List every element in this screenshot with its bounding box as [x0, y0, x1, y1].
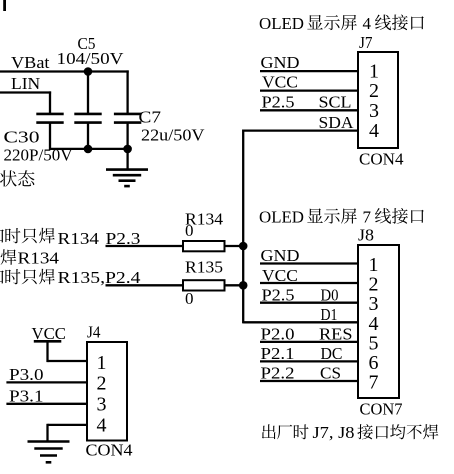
wire: J7 GND pin 1 — [260, 70, 358, 72]
wire: VBat horizontal rail — [0, 70, 129, 72]
connector J4 body — [87, 342, 127, 441]
svg-text:VCC: VCC — [32, 324, 67, 343]
wire: drop from VBat rail to C5 — [87, 72, 89, 115]
svg-text:R134: R134 — [58, 229, 100, 248]
wire: J7 SCL pin 3 — [260, 109, 358, 111]
svg-text:P2.2: P2.2 — [261, 364, 295, 383]
wire: vertical bus SDA/D1 — [242, 130, 244, 324]
svg-text:RES: RES — [319, 325, 353, 344]
wire: P2.3 to R134 — [106, 245, 184, 247]
svg-text:VCC: VCC — [262, 72, 298, 91]
svg-text:VCC: VCC — [262, 266, 298, 285]
capacitor C7 — [114, 114, 141, 150]
svg-text:220P/50V: 220P/50V — [4, 146, 74, 165]
wire: VCC tap stem — [46, 341, 48, 362]
svg-text:7: 7 — [369, 372, 379, 394]
wire: capacitor bottom bus — [50, 148, 128, 150]
wire: J7 VCC pin 2 — [260, 89, 358, 91]
svg-text:OLED: OLED — [259, 14, 304, 33]
svg-text:4: 4 — [97, 414, 107, 436]
svg-text:4: 4 — [363, 14, 372, 33]
svg-text:3: 3 — [369, 100, 379, 122]
svg-text:R135,P2.4: R135,P2.4 — [58, 268, 142, 287]
wire: stem to ground — [126, 149, 128, 170]
svg-text:0: 0 — [185, 221, 194, 240]
note line 1: 口时只焊R134 P2.3 — [0, 230, 4, 243]
wire: R134 to bus — [225, 245, 244, 247]
svg-text:D1: D1 — [321, 305, 338, 324]
svg-text:J7, J8: J7, J8 — [313, 423, 355, 442]
junction: R135 / bus — [239, 281, 248, 290]
ground (bottom, J4 pin 4) — [28, 442, 70, 463]
note: 出厂时J7,J8接口均不焊 — [262, 424, 276, 439]
text 状态 — [0, 170, 17, 186]
wire: J8 VCC pin 2 — [260, 282, 358, 284]
resistor R135 body — [183, 280, 225, 290]
VCC power tap (J4) — [34, 340, 62, 343]
svg-text:P3.1: P3.1 — [9, 387, 44, 406]
svg-text:J4: J4 — [87, 322, 101, 341]
svg-text:R135: R135 — [185, 258, 223, 277]
wire: J8 D0 pin 3 — [260, 302, 358, 304]
wire: R135 to bus — [225, 284, 244, 286]
connector J7 body — [358, 52, 398, 148]
note line 3: 口时只焊R135,P2.4 — [0, 271, 4, 284]
wire: J8 CS pin 7 — [260, 380, 358, 382]
svg-text:GND: GND — [261, 246, 300, 265]
svg-text:J8: J8 — [358, 225, 374, 244]
ground (top, below C7) — [106, 170, 148, 187]
svg-text:1: 1 — [97, 352, 107, 374]
svg-text:SCL: SCL — [319, 93, 352, 112]
svg-text:GND: GND — [261, 53, 300, 72]
svg-text:P2.5: P2.5 — [262, 93, 295, 112]
wire: J8 RES pin 5 — [260, 341, 358, 343]
svg-text:D0: D0 — [321, 285, 339, 304]
svg-text:C30: C30 — [4, 128, 40, 147]
svg-text:DC: DC — [321, 344, 343, 363]
svg-text:CS: CS — [320, 364, 341, 383]
svg-text:LIN: LIN — [11, 74, 40, 93]
svg-text:3: 3 — [97, 393, 107, 415]
junction: VBat / C5 — [84, 67, 93, 76]
svg-text:P2.1: P2.1 — [261, 344, 295, 363]
wire: top-left corner stub — [3, 0, 6, 11]
svg-text:104/50V: 104/50V — [57, 49, 125, 68]
svg-text:7: 7 — [363, 207, 372, 226]
svg-text:4: 4 — [369, 120, 379, 142]
wire: LIN horizontal — [0, 91, 51, 93]
wire: P2.4 to R135 — [106, 284, 184, 286]
wire: J4 pin 4 to ground — [48, 424, 88, 426]
junction: C7 bottom / ground — [123, 145, 132, 154]
junction: R134 / bus — [239, 242, 248, 251]
svg-text:CON4: CON4 — [86, 441, 134, 460]
wire: bus to J8 D1 (pin 4) — [243, 321, 358, 323]
wire: drop from VBat rail to C7 — [126, 70, 128, 114]
wire: J4 P3.1 pin 3 — [6, 403, 87, 405]
svg-text:0: 0 — [185, 289, 194, 308]
wire: J4 P3.0 pin 2 — [6, 381, 87, 383]
svg-text:OLED: OLED — [259, 207, 304, 226]
svg-text:SDA: SDA — [319, 113, 355, 132]
connector J8 body — [358, 245, 399, 398]
svg-text:1: 1 — [369, 60, 379, 82]
svg-text:22u/50V: 22u/50V — [141, 126, 205, 145]
capacitor C5 — [74, 114, 101, 150]
svg-text:R134: R134 — [18, 249, 60, 268]
svg-text:P2.3: P2.3 — [106, 229, 141, 248]
svg-text:VBat: VBat — [11, 53, 50, 72]
svg-text:CON4: CON4 — [359, 149, 404, 168]
svg-text:J7: J7 — [359, 33, 373, 52]
resistor R134 body — [183, 241, 225, 251]
note line 2: 焊R134 — [1, 249, 17, 265]
wire: drop from LIN to C30 — [49, 91, 51, 114]
svg-text:P2.5: P2.5 — [262, 285, 295, 304]
svg-text:2: 2 — [369, 80, 379, 102]
junction: C5 bottom — [84, 145, 93, 154]
svg-text:P2.0: P2.0 — [261, 325, 295, 344]
svg-text:C7: C7 — [139, 108, 162, 127]
wire: J8 DC pin 6 — [260, 360, 358, 362]
svg-text:2: 2 — [97, 372, 107, 394]
wire: J8 GND pin 1 — [260, 262, 358, 264]
wire: J7 SDA pin 4 — [243, 129, 358, 131]
svg-text:P3.0: P3.0 — [9, 365, 44, 384]
svg-text:CON7: CON7 — [360, 399, 403, 418]
wire: J4 pin 1 — [48, 360, 88, 362]
capacitor C30 — [36, 114, 63, 150]
